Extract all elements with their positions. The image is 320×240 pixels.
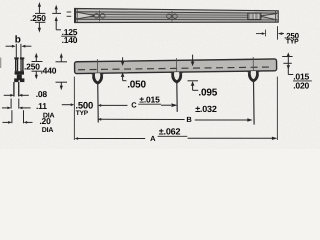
dimension C ±.015 — [98, 95, 178, 110]
dimension .20 DIA — [3, 110, 54, 134]
contact clip cross-section — [14, 57, 24, 82]
pin 1 wire extension — [97, 84, 100, 122]
dimension .11 DIA — [2, 99, 55, 120]
dimension .440 — [41, 53, 68, 90]
top view latch plate — [248, 13, 261, 20]
front view rail and pins (slight scan skew) — [74, 57, 277, 128]
pin 1 centerline — [96, 59, 98, 73]
dimension B ±.032 — [98, 104, 253, 124]
left margin artifact — [0, 58, 2, 69]
top view left taper — [77, 12, 94, 19]
pin 3 — [248, 71, 259, 82]
dimension .125 / .140 leader — [52, 5, 78, 45]
dimension .250 mid left — [24, 53, 43, 80]
front view rail body — [75, 59, 277, 74]
dimension .095 — [188, 55, 218, 99]
pin 2 wire extension — [176, 83, 178, 112]
pin 3 wire extension — [253, 82, 256, 125]
dimension .500 TYP — [62, 100, 93, 117]
dimension .250 top left — [30, 2, 46, 33]
dimension .250 TYP top right — [256, 26, 300, 45]
top view hole pair 1 — [94, 14, 99, 19]
pin 2 — [171, 72, 182, 83]
clip tail wires — [14, 82, 19, 97]
dimension .08 — [4, 89, 48, 99]
pin 3 centerline — [252, 57, 254, 71]
pin 2 centerline — [175, 58, 177, 72]
dimension b — [6, 35, 32, 58]
top view hole pair 2 — [167, 14, 172, 19]
right extension line — [276, 77, 278, 140]
dimension .050 — [121, 57, 147, 90]
dimension .015 / .020 — [282, 52, 312, 90]
pin 1 — [92, 73, 103, 84]
top view rail body — [75, 9, 279, 23]
scan grain overlay — [0, 0, 320, 149]
left extension line — [73, 77, 75, 140]
dimension A ±.062 — [75, 127, 278, 143]
top view right taper — [261, 14, 276, 20]
